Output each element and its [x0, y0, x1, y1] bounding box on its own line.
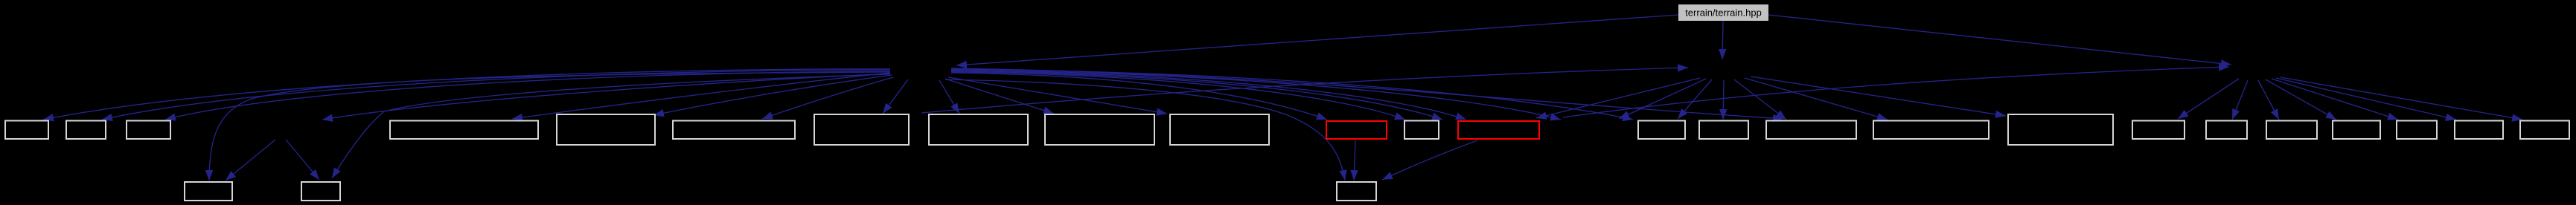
node K two-line: [1045, 114, 1154, 145]
wire: hub2 to node X: [2258, 80, 2279, 120]
wire: hub1 to node N right: [951, 71, 1442, 120]
node Z: [2397, 121, 2437, 140]
node W: [2206, 121, 2247, 140]
node C: [127, 121, 170, 140]
wire: hub1 to node C: [165, 71, 890, 120]
wire: hub2 to node AA: [2276, 78, 2456, 120]
wire: hub3 to node U: [1751, 77, 2006, 116]
node G two-line: [557, 114, 655, 145]
wire: hub2 to node Z: [2272, 79, 2398, 120]
wire: hub3 to node S: [1734, 79, 1786, 120]
wire: hub1 to hidden node hubL: [322, 74, 890, 120]
wire: hidden node hubL to node D: [226, 140, 275, 180]
wire: node O to node P: [1382, 140, 1477, 180]
wire: hub1 to node N: [951, 72, 1405, 120]
wire: node J to hub3 rising line: [921, 68, 1688, 113]
wire: hub2 to node AB: [2281, 77, 2522, 120]
node S: [1766, 121, 1856, 140]
wire: hub1 to node M: [951, 73, 1327, 120]
node X: [2266, 121, 2317, 140]
wire: node M to node P: [1354, 140, 1355, 180]
wire: hub3 to hidden node hubM: [1619, 79, 1706, 119]
wire: hub1 to node G: [653, 75, 892, 115]
node T2: [1873, 121, 1989, 140]
node J two-line: [929, 114, 1028, 145]
wire: hub1 to node B: [102, 70, 890, 120]
wire: hub1 to node J: [939, 80, 959, 114]
wire: terrain.hpp to hub3: [1722, 21, 1723, 59]
wire: hub2 to node Y: [2266, 79, 2336, 120]
wire: hub1 to node I: [883, 79, 908, 114]
wire: hub1 to node F: [512, 73, 890, 119]
node H: [673, 121, 795, 140]
wire: hub1 to node E hook: [332, 74, 890, 178]
node B: [66, 121, 106, 140]
node V: [2132, 121, 2185, 140]
wire: hub3 to node Q: [1678, 79, 1712, 119]
node AA: [2455, 121, 2503, 140]
node U two-line: [2008, 114, 2113, 145]
node N: [1404, 121, 1439, 140]
wire: hub1 to node P curve: [945, 79, 1345, 180]
node Q: [1638, 121, 1685, 140]
wire: hub1 to hidden node hubM: [951, 70, 1561, 120]
node I two-line: [814, 114, 909, 145]
node AB: [2520, 121, 2569, 140]
node R: [1699, 121, 1748, 140]
wire: terrain.hpp to hub2: [1768, 15, 2231, 65]
node F: [390, 121, 538, 140]
node O red truncated: [1458, 121, 1539, 139]
wire: hub1 to node H: [762, 77, 893, 119]
wire: hub1 to node O: [951, 71, 1466, 120]
wire: hub2 to node W: [2232, 80, 2248, 120]
wire: hub3 to node O: [1536, 78, 1700, 118]
node D bottom row: [185, 182, 232, 201]
wire: hub3 to node T2: [1745, 78, 1888, 120]
wire: hub3 to node R: [1723, 80, 1724, 120]
svg-text:terrain/terrain.hpp: terrain/terrain.hpp: [1685, 7, 1762, 19]
wire: hub1 to node Q: [951, 69, 1633, 120]
node P bottom row: [1337, 182, 1376, 201]
node Y: [2333, 121, 2380, 140]
wire: hidden node hubL to node E: [286, 140, 319, 180]
wire: hub2 to node V: [2178, 79, 2239, 119]
node terrain/terrain.hpp (current file, grey): [1678, 4, 1768, 21]
wire: hidden node hubM to hub2 rising line: [1563, 67, 2229, 117]
node M red truncated: [1326, 121, 1387, 139]
wire: hub1 to node K: [945, 79, 1054, 114]
node L two-line: [1170, 114, 1269, 145]
node E bottom row: [301, 182, 340, 201]
node A: [5, 121, 48, 140]
wire: hub1 to node D hook: [209, 72, 890, 180]
wire: hub1 to node L: [948, 77, 1167, 114]
wire: terrain.hpp to hub1: [956, 15, 1678, 65]
wire: hub1 to node S long: [951, 68, 1783, 119]
wire: hub1 to node A: [43, 69, 890, 120]
